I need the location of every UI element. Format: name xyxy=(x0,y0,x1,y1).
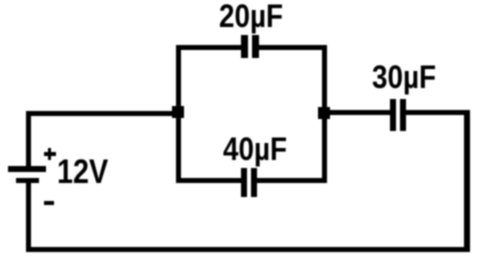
capacitor C3 30uF plates xyxy=(390,99,396,131)
label: 40uF value xyxy=(223,133,287,165)
wire: middle horizontal from battery branch to node A xyxy=(26,111,178,116)
wire: top branch left segment xyxy=(176,45,244,50)
battery V1 minus sign xyxy=(44,201,54,205)
label: 20uF value xyxy=(219,0,283,32)
capacitor C2 40uF plates xyxy=(241,168,247,197)
label: 30uF value xyxy=(372,61,436,93)
label: 12V battery value xyxy=(57,155,108,189)
node A: left junction dot xyxy=(172,106,184,118)
wire: parallel box left vertical branch xyxy=(176,45,181,183)
wire: bottom branch left segment xyxy=(176,178,243,183)
battery V1 negative plate (short) xyxy=(16,178,39,183)
wire: right vertical xyxy=(464,110,470,252)
node B: right junction dot xyxy=(318,107,330,119)
capacitor C1 20uF plates xyxy=(241,35,248,59)
wire: left vertical lower (battery - lead) xyxy=(26,183,31,252)
wire: top branch right segment xyxy=(255,45,327,50)
battery V1 positive plate (long) xyxy=(8,166,46,172)
wire: left vertical upper (battery + lead) xyxy=(26,111,31,167)
wire: 30uF series right segment xyxy=(404,110,470,115)
wire: bottom horizontal return xyxy=(26,247,470,252)
wire: bottom branch right segment xyxy=(255,178,327,183)
battery V1 plus sign xyxy=(44,152,56,155)
wire: 30uF series left segment xyxy=(327,110,392,115)
wire: parallel box right vertical branch xyxy=(322,45,327,183)
